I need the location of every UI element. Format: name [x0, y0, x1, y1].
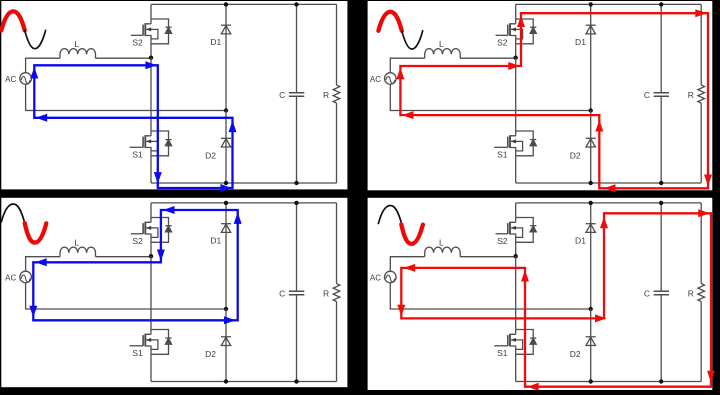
circuit panel bottom-left — [5, 201, 340, 384]
arrow TR up beside D2 — [595, 120, 603, 132]
circuit panel top-left — [5, 2, 340, 185]
panel top-left background — [1, 1, 347, 189]
arrow BR left on bottom segment — [527, 383, 539, 391]
current path BR (red loop) — [401, 213, 711, 386]
arrow BR right on middle segment — [595, 314, 607, 322]
arrow TL left on return segment — [36, 114, 48, 122]
arrow TR right toward S2 — [508, 62, 520, 70]
current path TR (red loop) — [400, 13, 708, 188]
arrow BL left on return segment — [35, 258, 47, 266]
arrow BR left toward AC — [404, 264, 416, 272]
arrow BR down at AC — [397, 305, 405, 317]
arrow BR up beside D1 — [600, 217, 608, 229]
arrow TR up at AC — [396, 68, 404, 80]
arrow TL right on bottom segment — [220, 184, 232, 192]
arrow BL down through S2 — [157, 250, 165, 262]
current path BL (blue loop) — [33, 210, 237, 320]
arrow TL up beside D2 — [229, 121, 237, 133]
sine icon TL: positive half red — [1, 11, 45, 48]
arrow TL up at AC — [30, 67, 38, 79]
arrow TL right on top segment — [145, 61, 157, 69]
sine icon TR: positive half red — [378, 12, 422, 49]
arrow TL down through S1 — [154, 172, 162, 184]
arrow TR up through S2 — [517, 16, 525, 28]
arrow BL right on lower segment — [224, 316, 236, 324]
sine icon BL: negative half red — [1, 204, 46, 243]
arrow BL left on top segment — [163, 206, 175, 214]
arrow TR left on bottom segment — [604, 184, 616, 192]
arrow BR right on top segment — [698, 209, 710, 217]
current path TL (blue loop) — [34, 65, 232, 188]
sine icon BR: negative half red — [378, 206, 423, 244]
arrow BL down at AC — [29, 306, 37, 318]
panel bottom-right background — [368, 198, 713, 390]
circuit panel top-right — [370, 2, 705, 185]
arrow BL up beside D1 — [234, 212, 242, 224]
arrow TR right on top segment — [695, 9, 707, 17]
arrow TR left on return segment — [402, 111, 414, 119]
arrow TR down on right segment — [704, 175, 712, 187]
circuit panel bottom-right — [370, 201, 705, 384]
arrow BR down on right segment — [707, 371, 715, 383]
panel bottom-left background — [1, 198, 347, 387]
panel top-right background — [368, 1, 713, 190]
arrow BR up through S1 — [521, 270, 529, 282]
